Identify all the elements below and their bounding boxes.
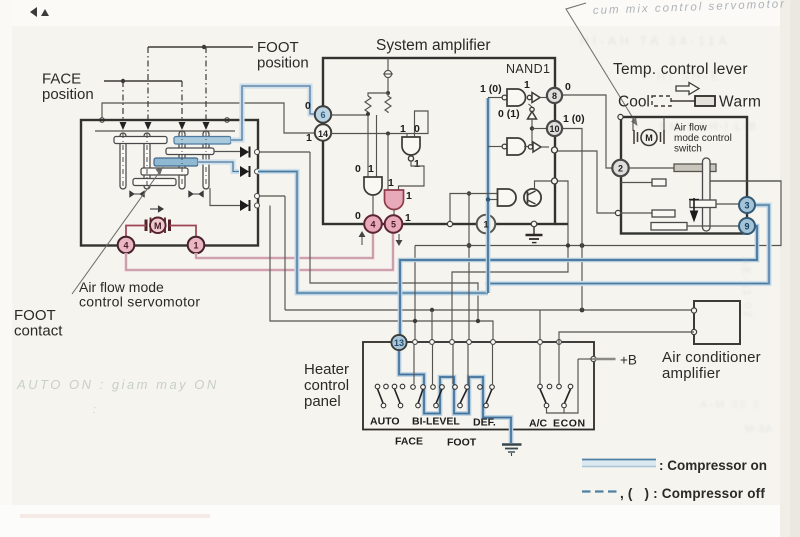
svg-text:0 (1): 0 (1) — [498, 108, 520, 120]
wire drop to BI-LEVEL pin column — [431, 310, 433, 344]
wire H2 row from transistor loop — [452, 224, 568, 344]
svg-text:9: 9 — [744, 222, 749, 232]
node pin D2 — [255, 169, 260, 174]
heater control panel box — [363, 342, 594, 430]
svg-text:position: position — [42, 86, 94, 103]
svg-text:13: 13 — [394, 338, 404, 348]
wire slider to right loop — [710, 180, 781, 182]
FACE position label — [42, 71, 94, 104]
switch ECON lever — [557, 384, 573, 408]
svg-text:, ( ) : Compressor off: , ( ) : Compressor off — [620, 486, 765, 501]
svg-text:DEF.: DEF. — [473, 417, 496, 429]
wire drop to A/C pin column — [539, 310, 541, 344]
wire NAND-A output zigzag to pink gate — [399, 161, 425, 190]
node pin AC amp 1 — [691, 308, 696, 313]
inverter after NAND-D — [527, 93, 547, 103]
svg-text:NAND1: NAND1 — [506, 62, 550, 76]
contact bar row4 (white) — [141, 168, 188, 175]
node pin D3 — [255, 203, 260, 208]
wire diode3 output down — [270, 206, 493, 345]
leader line from annotation to temp motor — [566, 3, 638, 126]
registration mark top-left corner — [30, 7, 49, 17]
Air flow mode control servomotor label — [79, 279, 200, 310]
pink wire A terminal1 to sysamp pin4 — [196, 233, 373, 258]
svg-text:1: 1 — [400, 123, 406, 135]
terminal circle 4 (left box) — [118, 237, 135, 254]
svg-text:Air flow: Air flow — [674, 123, 708, 134]
blue compressor-on comb through switches — [399, 350, 511, 443]
wire pink gate output to circle 5 — [393, 209, 395, 215]
wire NAND-A left input — [406, 134, 408, 138]
handwriting annotation AUTO ON — [16, 377, 219, 416]
motor rotation arrow — [150, 206, 163, 212]
faint pink smudge bottom left — [20, 514, 210, 518]
node blue junction dot — [486, 281, 491, 286]
temp tall slider bar — [703, 158, 711, 231]
wire transistor collector loop — [535, 181, 569, 224]
svg-text:M: M — [645, 133, 653, 143]
terminal circle 4 (sysamp pink) — [364, 215, 382, 233]
svg-text:FOOT: FOOT — [14, 307, 56, 324]
double arrow symbol right — [189, 191, 203, 197]
svg-text:amplifier: amplifier — [662, 365, 720, 382]
ground (heater panel) — [502, 445, 522, 457]
svg-text:contact: contact — [14, 323, 63, 340]
lever slot dashed rect — [652, 96, 671, 106]
wire dash-dot drop FACE 1 — [122, 81, 124, 121]
AND gate G — [498, 189, 517, 206]
svg-text:FOOT: FOOT — [257, 39, 299, 56]
node pin on edge y213 — [615, 210, 620, 215]
terminal circle 1 (left box) — [188, 237, 205, 254]
svg-text:1: 1 — [483, 220, 488, 230]
AND gate B — [364, 177, 382, 195]
svg-text:Temp. control lever: Temp. control lever — [613, 61, 748, 78]
wire red motor left to terminal 4 — [126, 226, 146, 237]
switch DEF pole — [478, 385, 495, 408]
wire AND-G input2 from blue node — [488, 199, 497, 201]
wire H5 row to AC amplifier — [285, 309, 694, 311]
wire R2 column to pink gate — [387, 134, 389, 191]
svg-text::: : — [93, 404, 96, 416]
resistor R2 — [385, 93, 391, 113]
svg-text:1: 1 — [414, 158, 420, 170]
wire inner rail — [95, 130, 235, 132]
diode D1 — [240, 147, 250, 158]
system amplifier box — [323, 58, 555, 224]
wire column V415 — [414, 246, 416, 345]
node dot inverter branch — [530, 126, 534, 130]
svg-text:M: M — [154, 221, 162, 231]
wire blue feed to circle 6 (foot position net) — [231, 86, 315, 140]
Air flow mode control switch label — [674, 123, 732, 155]
wire +B internal — [564, 359, 578, 413]
terminal circle 9 — [739, 218, 755, 234]
svg-text:8: 8 — [552, 91, 557, 101]
svg-text:AUTO ON : giam may ON: AUTO ON : giam may ON — [16, 377, 219, 392]
NAND gate D — [488, 89, 526, 106]
motor M2 hanger stubs — [633, 117, 664, 131]
wire box bottom extension — [555, 223, 568, 225]
wire A/C pin columns down — [540, 344, 559, 384]
air flow mode control switch box — [621, 117, 747, 234]
svg-text:A/C: A/C — [529, 418, 548, 430]
wire column V469 — [468, 194, 470, 345]
svg-text:4: 4 — [370, 220, 375, 230]
blue wire compressor line circle3 loop — [488, 205, 769, 284]
svg-text:1 (0): 1 (0) — [480, 83, 502, 95]
wire circle6 to AND-B input — [331, 113, 368, 177]
svg-text:0: 0 — [565, 81, 571, 93]
wire row2 to diode D1 — [214, 151, 310, 154]
svg-text:FOOT: FOOT — [447, 437, 477, 449]
legend compressor off dashes — [582, 490, 618, 492]
node pin plain y196 — [255, 194, 260, 199]
node open pin ground x534 — [531, 221, 537, 227]
wire to diode D3 — [210, 188, 240, 206]
servomotor M body — [146, 218, 170, 234]
terminal circle 14 — [315, 124, 331, 140]
wire dot to circle 10 — [532, 128, 547, 130]
node pin D1 — [255, 150, 260, 155]
wire dash-dot drop FOOT 1 — [147, 47, 149, 121]
svg-text:Air conditioner: Air conditioner — [662, 349, 761, 366]
svg-text:10: 10 — [549, 124, 559, 134]
FOOT contact label — [14, 307, 63, 340]
wire AND-G input1 feed — [450, 194, 497, 226]
terminal circle 13 — [391, 335, 406, 350]
wire dash-dot inside box col2 — [146, 133, 148, 186]
node power junction — [386, 91, 390, 95]
svg-text:0: 0 — [414, 123, 420, 135]
terminal circle 2 — [612, 160, 628, 176]
node FOOT junction dot — [202, 45, 206, 49]
terminal circle 10 — [547, 121, 562, 136]
block arrow right — [676, 83, 699, 95]
NAND gate F — [488, 138, 526, 155]
lever knob rect — [695, 96, 715, 106]
node dots V469 — [467, 191, 471, 195]
switch FOOT pole — [453, 385, 470, 408]
switch BI-LEVEL pole — [431, 385, 445, 408]
wire bar row5 to circle 9 — [687, 225, 739, 227]
svg-text:0: 0 — [355, 210, 361, 222]
wire edge to bar row2 — [621, 182, 652, 184]
leader line to foot contact bar — [72, 167, 163, 294]
svg-text:ECON: ECON — [553, 418, 586, 430]
svg-text:0: 0 — [355, 163, 361, 175]
node open pin y151 on box edge — [552, 147, 558, 153]
wire bar row3 to circle 3 — [716, 203, 739, 205]
wire AND-B right input up — [376, 115, 378, 177]
wire circle10 net column V582 — [562, 129, 583, 311]
pink AND gate C — [385, 190, 404, 210]
node dots on H1 — [566, 243, 570, 247]
wire heater pin columns down to contacts — [414, 344, 493, 384]
slider bar vertical 3 — [179, 131, 185, 189]
contact bar row5 (white) — [133, 179, 176, 186]
svg-text:1: 1 — [405, 212, 411, 224]
svg-text:System amplifier: System amplifier — [376, 37, 491, 54]
contact bar row1 right (blue highlighted) — [174, 137, 231, 145]
svg-text:BI-LEVEL: BI-LEVEL — [412, 416, 460, 428]
NAND gate A — [402, 137, 420, 161]
terminal circle 5 (sysamp pink) — [385, 215, 403, 233]
diode D2 — [240, 166, 250, 177]
wire dash-dot drop FACE 2 — [181, 81, 183, 121]
wire pin to bar row4 — [620, 212, 652, 214]
node open pin bottom edge x450 — [447, 221, 452, 226]
ghost bleedthrough text — [580, 34, 773, 435]
wire lever — [671, 100, 695, 102]
node pins on panel top edge — [413, 340, 562, 345]
servomotor contact box — [81, 120, 258, 246]
svg-text:6: 6 — [320, 110, 325, 120]
svg-text:1: 1 — [524, 79, 530, 91]
resistor R1 — [365, 96, 371, 113]
inverter up-triangle — [528, 104, 537, 147]
svg-text:1: 1 — [306, 132, 312, 144]
pink wire B terminal4 to sysamp pin5 — [126, 233, 393, 270]
node FACE junction dot — [121, 79, 125, 83]
wire AND-B output to circle 4 — [372, 195, 374, 215]
svg-text:1: 1 — [406, 190, 412, 202]
wire diode1 output down — [310, 152, 478, 321]
wire circle14 to NAND-A inputs — [331, 111, 428, 137]
wire plain pin row (y196) — [258, 195, 285, 197]
arrow below circle 4 — [359, 232, 364, 245]
blue vertical compressor-on through circle 1 — [486, 98, 491, 293]
node dot V415 x H6 — [413, 319, 417, 323]
svg-text:A-M 30 3: A-M 30 3 — [700, 399, 761, 411]
svg-text:FACE: FACE — [395, 436, 423, 448]
slider bar vertical 1 — [120, 133, 126, 189]
svg-text:1 (0): 1 (0) — [563, 113, 585, 125]
node dot R1 bottom — [366, 112, 370, 116]
svg-text:HI-AH TA 34-11A: HI-AH TA 34-11A — [580, 34, 731, 48]
svg-text:AE-11 02: AE-11 02 — [739, 258, 753, 319]
node open pin y181 on box edge — [552, 178, 558, 184]
temp bar row2 — [652, 179, 666, 186]
switch FACE pole — [411, 385, 426, 408]
down arrow symbol — [689, 198, 699, 221]
svg-text:5: 5 — [391, 220, 396, 230]
svg-text:+B: +B — [620, 353, 637, 368]
contact bar row2 (white) — [166, 148, 214, 155]
wire pin y196 output down — [284, 196, 286, 310]
wire blue diode2 output to system amplifier (compressor-on) — [258, 172, 488, 294]
diode D3 — [240, 200, 250, 211]
contact bar row1 left (white) — [114, 137, 167, 144]
slider bar vertical 2 — [144, 133, 150, 189]
svg-text:mode control: mode control — [674, 133, 732, 144]
switch A/C lever — [538, 384, 552, 408]
navy wire circle9 to circle13 — [400, 226, 757, 335]
svg-text:AUTO: AUTO — [370, 416, 400, 428]
wire circle2 to slider — [629, 167, 674, 169]
svg-text:FACE: FACE — [42, 71, 81, 88]
wire red motor right to terminal 1 — [170, 226, 197, 237]
node dot at blue — [486, 197, 490, 201]
arrow below circle 5 — [396, 234, 401, 245]
wire power rail to R1 — [368, 93, 388, 96]
wire pin153 net to temp box pin — [556, 151, 615, 213]
power symbol — [383, 58, 393, 93]
transistor — [524, 189, 541, 206]
wire AC amp pin2 to ECON column — [559, 332, 694, 344]
svg-text:Cool: Cool — [618, 94, 650, 111]
svg-text:: Compressor on: : Compressor on — [659, 458, 767, 473]
temp bar row4 — [652, 210, 675, 217]
svg-text:panel: panel — [304, 393, 341, 410]
temp bar row5 — [651, 223, 687, 231]
switch AUTO pole 2 — [392, 384, 405, 408]
wire FOOT position bus — [148, 46, 253, 48]
terminal circle 8 — [547, 88, 562, 103]
wire dash-dot drop FOOT 2 — [205, 47, 207, 121]
svg-text:position: position — [257, 55, 309, 72]
svg-text:3: 3 — [744, 201, 749, 211]
svg-text:control: control — [304, 377, 349, 394]
air conditioner amplifier box — [694, 301, 740, 344]
arrowheads into box — [120, 122, 127, 130]
node pin AC amp 2 — [691, 329, 696, 334]
wire circle8 net to circle2 — [561, 95, 612, 168]
motor M2 — [634, 130, 664, 146]
node dots on H5 — [430, 308, 434, 312]
Air conditioner amplifier label — [662, 349, 761, 382]
svg-text:M-3A: M-3A — [745, 424, 773, 435]
svg-text:Heater: Heater — [304, 361, 349, 378]
terminal circle 6 — [315, 106, 331, 122]
node dot V478 x H6 — [476, 319, 480, 323]
Heater control panel label — [304, 361, 349, 410]
legend compressor on line — [582, 460, 656, 467]
wire dash-dot inside box col4 — [205, 131, 207, 187]
ground (system amplifier) — [526, 227, 543, 243]
temp bar row3 — [690, 200, 716, 208]
svg-text:1: 1 — [368, 163, 374, 175]
wire FACE position bus — [104, 80, 182, 82]
FOOT position label — [257, 39, 309, 72]
terminal circle 3 — [739, 197, 755, 213]
svg-text:control servomotor: control servomotor — [79, 294, 200, 310]
svg-text:1: 1 — [388, 177, 394, 189]
svg-text:4: 4 — [123, 241, 128, 251]
svg-text:2: 2 — [618, 164, 623, 174]
wire blue row3 to diode D2 — [198, 162, 239, 172]
node box top pin — [100, 118, 105, 123]
switch AUTO pole 1 — [375, 384, 388, 408]
node pin +B on panel edge — [591, 356, 596, 361]
node box top pin 2 — [225, 118, 230, 123]
temp slider bar row1 (gray filled) — [674, 164, 716, 172]
wire dash-dot inside box col1 — [122, 133, 124, 186]
wire upper loop to servomotor box pin (circle 14 net) — [102, 103, 315, 133]
inverter after NAND-F — [524, 142, 549, 152]
svg-text:14: 14 — [318, 129, 328, 139]
svg-text:switch: switch — [674, 144, 702, 155]
contact bar row3 (blue highlighted foot contact) — [154, 158, 198, 166]
svg-text:Warm: Warm — [719, 94, 761, 111]
node pin top-left corner — [618, 114, 623, 119]
wire H1 long row to right loop — [415, 181, 781, 246]
slider bar vertical 4 — [203, 131, 209, 189]
double arrow symbol left — [130, 191, 144, 197]
svg-text:1: 1 — [193, 241, 198, 251]
wire +B stub — [578, 358, 594, 360]
svg-text:0: 0 — [305, 100, 311, 112]
terminal circle 1 (sysamp) — [477, 215, 496, 234]
node dot R2 bottom — [386, 132, 390, 136]
wire dash-dot inside box col3 — [181, 131, 183, 187]
